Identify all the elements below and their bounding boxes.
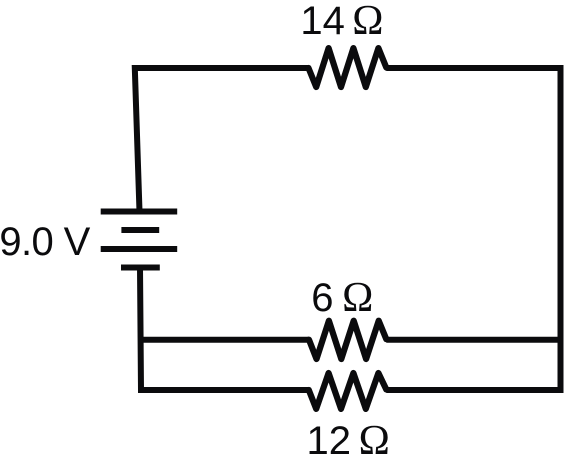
svg-text:Ω: Ω xyxy=(342,275,373,321)
resistor R1 14 ohm xyxy=(309,48,387,87)
svg-text:9.0 V: 9.0 V xyxy=(0,220,91,264)
svg-text:12: 12 xyxy=(307,419,352,463)
wire top-right, right side and bottom-right loop xyxy=(386,68,560,390)
wire left-bottom: battery negative down and across bottom to R3 xyxy=(140,268,309,391)
svg-text:Ω: Ω xyxy=(352,0,383,44)
resistor R3 12 ohm xyxy=(309,373,387,409)
svg-text:6: 6 xyxy=(311,276,333,320)
svg-text:Ω: Ω xyxy=(359,418,390,464)
wire 6-ohm branch right xyxy=(386,337,560,343)
resistor R2 6 ohm xyxy=(309,321,386,359)
wire 6-ohm branch left xyxy=(141,337,309,343)
wire left-top: battery positive up and across top to R1 xyxy=(135,68,309,212)
svg-text:14: 14 xyxy=(300,0,345,43)
battery V1 9.0 V xyxy=(101,212,178,268)
